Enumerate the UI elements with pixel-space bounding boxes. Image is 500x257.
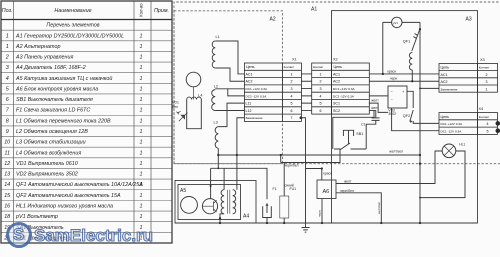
svg-text:A1: A1 xyxy=(311,7,317,13)
svg-text:1: 1 xyxy=(140,33,143,39)
svg-text:X4: X4 xyxy=(479,107,484,111)
svg-text:L3 Обмотка стабилизации: L3 Обмотка стабилизации xyxy=(16,140,86,146)
svg-text:2: 2 xyxy=(5,55,9,61)
svg-text:1: 1 xyxy=(140,204,143,210)
svg-text:1: 1 xyxy=(140,214,143,220)
svg-text:+: + xyxy=(402,89,405,94)
svg-text:1: 1 xyxy=(140,172,143,178)
svg-text:QF2: QF2 xyxy=(403,114,410,118)
svg-text:1: 1 xyxy=(140,182,143,188)
svg-text:Заземление: Заземление xyxy=(441,87,458,91)
svg-text:8: 8 xyxy=(6,118,9,124)
svg-text:L1: L1 xyxy=(216,35,220,39)
svg-text:SC1: SC1 xyxy=(333,102,340,106)
svg-text:SC2: SC2 xyxy=(333,109,340,113)
svg-text:1: 1 xyxy=(6,44,9,50)
svg-text:AC1: AC1 xyxy=(246,72,253,76)
svg-text:L3: L3 xyxy=(214,121,218,125)
svg-text:желт/зел: желт/зел xyxy=(389,150,403,154)
svg-text:1: 1 xyxy=(140,150,143,156)
svg-text:AC2: AC2 xyxy=(333,80,340,84)
svg-text:1: 1 xyxy=(6,33,9,39)
svg-text:А4 Двигатель 168F, 168F-2: А4 Двигатель 168F, 168F-2 xyxy=(15,65,86,71)
svg-text:QF1: QF1 xyxy=(403,40,410,44)
svg-text:желт: желт xyxy=(371,99,379,103)
svg-text:1: 1 xyxy=(140,193,143,199)
svg-text:DC1 +12V 0.3A: DC1 +12V 0.3A xyxy=(246,87,269,91)
svg-text:SB1 Выключатель двигателя: SB1 Выключатель двигателя xyxy=(16,97,93,103)
svg-text:F1: F1 xyxy=(273,187,277,191)
svg-text:6: 6 xyxy=(291,109,293,113)
svg-text:красн: красн xyxy=(323,171,332,175)
svg-text:C1: C1 xyxy=(361,122,366,126)
svg-text:15: 15 xyxy=(4,193,11,199)
svg-text:1: 1 xyxy=(140,140,143,146)
svg-text:AC2: AC2 xyxy=(441,80,448,84)
svg-text:7: 7 xyxy=(291,116,293,120)
svg-text:~: ~ xyxy=(391,97,394,102)
svg-text:7: 7 xyxy=(6,108,10,114)
svg-text:Поз.: Поз. xyxy=(2,8,13,14)
svg-text:А5 Катушка зажигания ТЦ с нака: А5 Катушка зажигания ТЦ с накачкой xyxy=(15,75,112,82)
svg-text:4: 4 xyxy=(320,94,322,98)
svg-text:DC1 +12V 0.3A: DC1 +12V 0.3A xyxy=(441,122,464,126)
svg-text:1: 1 xyxy=(140,55,143,61)
svg-text:L4: L4 xyxy=(198,93,202,97)
svg-text:FU1: FU1 xyxy=(290,187,297,191)
svg-text:3: 3 xyxy=(320,87,322,91)
svg-text:4: 4 xyxy=(291,94,293,98)
svg-text:HL1: HL1 xyxy=(459,142,465,146)
svg-text:А2 Альтернатор: А2 Альтернатор xyxy=(15,44,60,50)
svg-text:5: 5 xyxy=(320,102,322,106)
svg-text:синий: синий xyxy=(285,184,294,188)
svg-text:красн: красн xyxy=(387,69,396,73)
svg-text:18: 18 xyxy=(4,214,10,220)
svg-text:5: 5 xyxy=(291,102,293,106)
svg-text:−: − xyxy=(391,89,394,94)
svg-text:2: 2 xyxy=(486,73,488,77)
svg-text:Кол-во: Кол-во xyxy=(139,3,144,17)
svg-text:1: 1 xyxy=(320,72,322,76)
svg-text:1: 1 xyxy=(140,129,143,135)
svg-text:HL1 Индикатор низкого уровня м: HL1 Индикатор низкого уровня масла xyxy=(16,204,113,210)
svg-text:Прим.: Прим. xyxy=(154,8,169,14)
svg-text:Контакт: Контакт xyxy=(284,65,295,69)
svg-text:А6 Блок контроля уровня масла: А6 Блок контроля уровня масла xyxy=(15,86,98,92)
svg-text:Контакт: Контакт xyxy=(313,65,324,69)
svg-text:9: 9 xyxy=(6,129,9,135)
svg-text:3: 3 xyxy=(6,65,9,71)
svg-text:1: 1 xyxy=(291,72,293,76)
svg-text:11: 11 xyxy=(4,150,10,156)
svg-text:X3: X3 xyxy=(480,58,485,62)
svg-text:A4: A4 xyxy=(243,214,249,220)
svg-text:pV1 Вольтметр: pV1 Вольтметр xyxy=(15,214,58,220)
svg-text:1: 1 xyxy=(140,161,143,167)
svg-text:1: 1 xyxy=(140,44,143,50)
svg-text:AC1: AC1 xyxy=(441,73,448,77)
svg-text:Контакт: Контакт xyxy=(479,115,490,119)
svg-text:2: 2 xyxy=(320,80,322,84)
svg-text:3: 3 xyxy=(486,80,488,84)
svg-text:5: 5 xyxy=(487,129,489,133)
svg-text:QF1 Автоматический выключатель: QF1 Автоматический выключатель 10А/12А/2… xyxy=(16,181,143,188)
svg-text:A6: A6 xyxy=(323,189,330,195)
svg-text:VD2 Выпрямитель 3502: VD2 Выпрямитель 3502 xyxy=(16,172,78,178)
svg-text:3502: 3502 xyxy=(388,112,396,116)
svg-text:AC1: AC1 xyxy=(333,72,340,76)
svg-text:желт/зел: желт/зел xyxy=(377,202,381,214)
svg-text:1: 1 xyxy=(140,108,143,114)
svg-text:1: 1 xyxy=(140,86,143,92)
svg-text:DC1 +12V 0.3A: DC1 +12V 0.3A xyxy=(333,87,356,91)
svg-text:А3 Панель управления: А3 Панель управления xyxy=(15,55,73,61)
svg-text:A2: A2 xyxy=(270,17,276,23)
svg-text:DC2 -12V 0.3A: DC2 -12V 0.3A xyxy=(246,94,268,98)
svg-text:черн/бел: черн/бел xyxy=(340,189,354,193)
svg-text:4: 4 xyxy=(6,76,9,82)
svg-text:AC2: AC2 xyxy=(246,80,253,84)
svg-text:A5: A5 xyxy=(180,188,186,194)
svg-text:Контакт: Контакт xyxy=(479,66,490,70)
svg-text:3: 3 xyxy=(291,87,293,91)
svg-text:Цепь: Цепь xyxy=(246,65,255,69)
svg-text:1: 1 xyxy=(140,97,143,103)
svg-text:черн: черн xyxy=(390,77,398,81)
svg-text:16: 16 xyxy=(4,204,10,210)
svg-text:Заземление: Заземление xyxy=(246,116,263,120)
svg-text:1: 1 xyxy=(486,87,488,91)
svg-text:L2 Обмотка освещения 12В: L2 Обмотка освещения 12В xyxy=(16,129,88,135)
svg-text:Цепь: Цепь xyxy=(334,65,343,69)
svg-text:A3: A3 xyxy=(466,17,472,23)
svg-text:Наименование: Наименование xyxy=(54,8,91,14)
svg-text:pV1: pV1 xyxy=(393,21,398,25)
svg-text:10: 10 xyxy=(4,140,10,146)
svg-text:L1 Обмотка переменного тока 22: L1 Обмотка переменного тока 220В xyxy=(16,118,111,124)
svg-text:L11: L11 xyxy=(246,102,252,106)
svg-text:Цепь: Цепь xyxy=(441,66,450,70)
svg-text:QF2 Автоматический выключатель: QF2 Автоматический выключатель 15А xyxy=(16,192,121,199)
svg-text:F1 Свеча зажигания LD F6TC: F1 Свеча зажигания LD F6TC xyxy=(16,108,90,114)
svg-text:L2: L2 xyxy=(214,84,218,88)
svg-text:13: 13 xyxy=(4,172,10,178)
svg-text:черн: черн xyxy=(318,210,322,217)
svg-text:L12: L12 xyxy=(246,109,252,113)
svg-text:DC2 -12V 0.3A: DC2 -12V 0.3A xyxy=(333,94,355,98)
svg-text:желт: желт xyxy=(344,179,352,183)
svg-text:6: 6 xyxy=(6,97,9,103)
svg-text:А1 Генератор DY2500L/DY3000L/D: А1 Генератор DY2500L/DY3000L/DY5000L xyxy=(15,33,124,39)
svg-text:2: 2 xyxy=(291,80,293,84)
svg-text:6: 6 xyxy=(320,109,322,113)
svg-text:L4 Обмотка возбуждения: L4 Обмотка возбуждения xyxy=(16,150,81,156)
svg-text:5: 5 xyxy=(6,86,10,92)
svg-text:VD1 Выпрямитель 0610: VD1 Выпрямитель 0610 xyxy=(16,161,78,167)
svg-text:X2: X2 xyxy=(333,58,338,62)
svg-text:4: 4 xyxy=(487,122,489,126)
svg-text:SB1: SB1 xyxy=(356,132,363,136)
svg-text:1: 1 xyxy=(140,118,143,124)
svg-text:черн/бел: черн/бел xyxy=(285,163,299,167)
svg-text:бел: бел xyxy=(172,105,178,109)
svg-text:1: 1 xyxy=(140,76,143,82)
svg-text:1: 1 xyxy=(140,65,143,71)
svg-text:12: 12 xyxy=(4,161,10,167)
svg-text:Цепь: Цепь xyxy=(441,115,450,119)
svg-text:X1: X1 xyxy=(292,58,297,62)
svg-text:Перечень элементов: Перечень элементов xyxy=(46,23,99,29)
svg-text:DC1 -12V 0.3A: DC1 -12V 0.3A xyxy=(441,129,463,133)
svg-text:14: 14 xyxy=(4,182,10,188)
svg-text:желт: желт xyxy=(371,106,379,110)
